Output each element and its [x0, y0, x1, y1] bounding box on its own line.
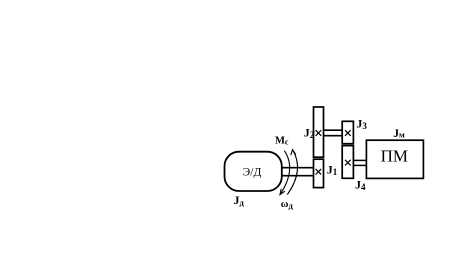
svg-text:ωд: ωд [281, 199, 294, 210]
bearing X on J4 [345, 160, 351, 166]
gear J3 body (upper-right rectangle) [342, 121, 353, 143]
gear J2 body (upper-left rectangle) [314, 107, 324, 157]
bearing X on J3 [345, 130, 351, 136]
gear J1 body (lower-left rectangle) [314, 159, 324, 187]
svg-text:Jм: Jм [393, 128, 405, 140]
bearing X on J1 [316, 169, 322, 175]
svg-text:ПМ: ПМ [381, 147, 408, 166]
shaft J2–J3 (double line) [324, 130, 343, 136]
arrow Mc (left arc, head down) [280, 151, 290, 195]
bearing X on J2 [316, 130, 322, 136]
motor Э/Д body [225, 152, 282, 191]
gear J4 body (lower-right rectangle) [342, 146, 353, 179]
machine ПМ box [366, 140, 423, 178]
svg-text:Э/Д: Э/Д [243, 166, 262, 178]
svg-text:Mс: Mс [275, 136, 289, 147]
motor shaft (double line) [281, 168, 315, 176]
arrow ωд (right arc, head up) [287, 150, 297, 195]
shaft J4–ПМ (double line) [354, 160, 367, 165]
